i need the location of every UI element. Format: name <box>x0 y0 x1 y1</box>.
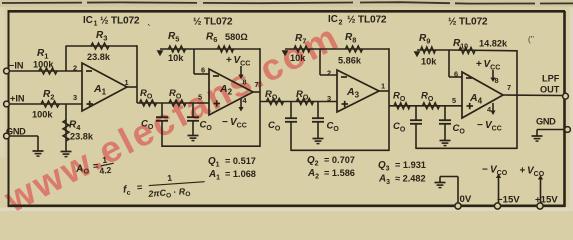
svg-text:OUT: OUT <box>540 85 560 95</box>
svg-text:5: 5 <box>452 96 456 105</box>
svg-text:6: 6 <box>454 70 458 79</box>
svg-text:4.2: 4.2 <box>99 165 112 176</box>
svg-text:GND: GND <box>6 127 26 137</box>
svg-text:LPF: LPF <box>542 74 560 84</box>
svg-text:+: + <box>226 55 232 66</box>
svg-text:2: 2 <box>339 17 343 26</box>
svg-text:IC: IC <box>83 15 93 26</box>
svg-text:10k: 10k <box>168 53 184 63</box>
svg-text:½ TL072: ½ TL072 <box>100 16 140 27</box>
svg-text:= 1.586: = 1.586 <box>324 168 355 178</box>
svg-text:10k: 10k <box>421 57 437 67</box>
svg-text:1: 1 <box>94 18 98 27</box>
svg-text:580Ω: 580Ω <box>225 32 248 42</box>
svg-text:+: + <box>520 166 526 177</box>
svg-text:= 1.931: = 1.931 <box>395 160 426 170</box>
svg-text:5.86k: 5.86k <box>338 56 362 66</box>
svg-text:100k: 100k <box>32 110 53 120</box>
svg-text:½ TL072: ½ TL072 <box>448 17 488 28</box>
svg-text:8: 8 <box>243 78 247 87</box>
svg-text:8: 8 <box>495 76 499 85</box>
svg-text:5: 5 <box>198 93 202 102</box>
svg-text:= 0.707: = 0.707 <box>324 155 355 165</box>
svg-text:23.8k: 23.8k <box>87 52 111 62</box>
svg-text:−: − <box>222 117 228 128</box>
svg-text:GND: GND <box>536 117 556 127</box>
svg-text:1: 1 <box>167 173 173 183</box>
svg-text:7: 7 <box>507 83 511 92</box>
svg-text:7: 7 <box>255 80 259 89</box>
svg-text:2: 2 <box>327 69 331 78</box>
svg-text:2: 2 <box>73 64 77 73</box>
svg-text:3: 3 <box>327 94 331 103</box>
svg-text:14.82k: 14.82k <box>479 39 508 49</box>
svg-text:= 1.068: = 1.068 <box>225 169 256 179</box>
svg-text:−: − <box>482 165 488 176</box>
svg-text:0V: 0V <box>460 194 472 205</box>
svg-text:6: 6 <box>201 66 205 75</box>
svg-text:−: − <box>477 120 483 131</box>
svg-text:½ TL072: ½ TL072 <box>347 15 387 26</box>
svg-text:+15V: +15V <box>535 195 558 206</box>
svg-text:−15V: −15V <box>497 195 520 206</box>
svg-text:= 0.517: = 0.517 <box>225 156 256 166</box>
svg-text:23.8k: 23.8k <box>70 132 94 142</box>
svg-text:(’’: (’’ <box>528 35 534 44</box>
svg-text:≈ 2.482: ≈ 2.482 <box>395 174 426 184</box>
svg-text:1: 1 <box>125 78 129 87</box>
svg-text:+IN: +IN <box>10 94 25 104</box>
svg-text:−IN: −IN <box>9 61 24 71</box>
svg-text:1: 1 <box>381 82 385 91</box>
svg-text:3: 3 <box>73 93 77 102</box>
svg-text:10k: 10k <box>290 53 306 63</box>
svg-text:IC: IC <box>328 14 338 25</box>
svg-text:½ TL072: ½ TL072 <box>193 17 233 28</box>
svg-text:100k: 100k <box>33 60 54 70</box>
svg-text:+: + <box>476 59 482 70</box>
svg-text:˞: ˞ <box>147 20 151 29</box>
